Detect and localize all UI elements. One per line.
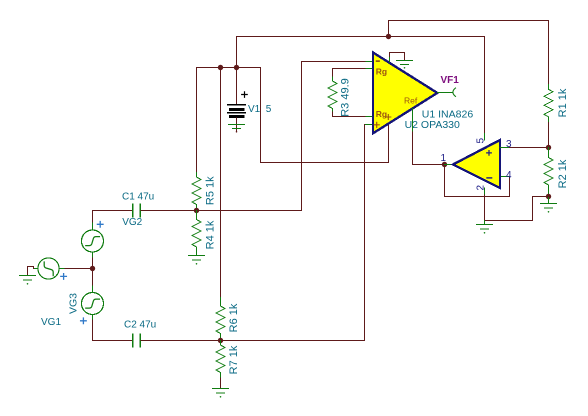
ground dot below battery (236, 131, 238, 133)
wire R2 node to U2 pin2 ground run (485, 197, 549, 221)
resistor R5 1k (192, 173, 201, 211)
wire feedback U2 output to pin4 (445, 165, 510, 197)
pin stub U1 Rg top (366, 68, 373, 70)
VG2 plus mark (97, 222, 103, 228)
capacitor C2 47u (133, 334, 140, 347)
ground dot at U1 top (404, 67, 406, 69)
ground at U2 pin2 (477, 221, 493, 230)
ground dot at VG1 (27, 283, 29, 285)
wire V+ row right branch down and over to U1 V- pin (261, 68, 389, 163)
wire V+ row down to R5 (196, 68, 198, 173)
wire U2 pin3 to R1 R2 node (510, 147, 549, 149)
ground dot below R4 (196, 263, 198, 265)
svg-text:Rg: Rg (376, 66, 387, 76)
node junction dot V+ row R6 branch (218, 65, 223, 70)
U1 minus mark (376, 60, 379, 62)
wire R7 bottom to ground (220, 378, 222, 389)
svg-text:VG1: VG1 (41, 317, 61, 328)
svg-text:R1 1k: R1 1k (557, 88, 569, 117)
wire C1 row right of capacitor (141, 210, 302, 212)
svg-text:3: 3 (506, 139, 512, 150)
node junction dot U2 output (442, 162, 447, 167)
node junction dot C2 R6 R7 (218, 338, 223, 343)
pin stub U1 output (437, 92, 452, 94)
voltage pin VF1 arc (453, 88, 456, 96)
resistor R6 1k (216, 298, 225, 341)
wire vertical second rail to V+ row (236, 37, 238, 68)
node junction dot R2 bottom (546, 194, 551, 199)
wire U1 Ref down to U2 output node (413, 132, 445, 165)
pin stub U1 V+ top (389, 57, 391, 63)
battery V1 negative lead (236, 118, 238, 132)
source VG3 circle (82, 293, 104, 315)
wire vertical from top rail down to second rail (388, 21, 390, 37)
ground below R4 (189, 256, 205, 261)
node junction dot C1 R4 R5 (194, 208, 199, 213)
wire U1 Rg top pin to R3 top (333, 69, 367, 78)
wire jog U1 top pin to ground (390, 53, 405, 61)
node junction dot V+ row battery branch (234, 65, 239, 70)
wire VG2 bottom to mid node (92, 258, 94, 269)
VG3 waveform symbol (86, 299, 100, 308)
pin stub U2 output pin1 (445, 164, 454, 166)
source VG2 circle (82, 230, 104, 252)
pin stub VG1 right (59, 268, 65, 270)
pin stub U1 plus input (365, 124, 373, 126)
U1 plus input mark (374, 122, 379, 127)
svg-text:C2 47u: C2 47u (124, 320, 156, 331)
svg-text:V1: V1 (248, 104, 261, 115)
pin stub U2 pin4 (500, 176, 510, 178)
VG2 waveform symbol (86, 237, 100, 246)
svg-text:C1 47u: C1 47u (122, 191, 154, 202)
wire U1 plus input down to C2 row (221, 125, 365, 341)
op-amp U2 OPA330 triangle (453, 140, 500, 188)
wire IN- from C1 node up to U1 minus input (302, 62, 367, 211)
ground dot below R7 (220, 396, 222, 398)
U2 minus mark (487, 177, 492, 179)
pin stub U1 Ref (412, 109, 414, 133)
wire V+ row horizontal (197, 67, 261, 69)
svg-text:Ref: Ref (404, 95, 418, 105)
svg-text:VG3: VG3 (68, 293, 80, 314)
wire top rail to R1 top (389, 21, 549, 85)
svg-text:R7 1k: R7 1k (228, 345, 240, 374)
wire VG2 top to C1 row (92, 211, 94, 224)
pin stub U1 minus input (366, 61, 373, 63)
U1 Rg bottom plus subscript (386, 115, 391, 120)
node junction dot VG mid (90, 266, 95, 271)
pin stub VG1 left (34, 268, 38, 270)
capacitor C1 47u (133, 204, 140, 217)
node junction dot on second rail (386, 34, 391, 39)
svg-text:R4 1k: R4 1k (205, 220, 217, 249)
wire second rail from battery branch to U2 pin5 branch (237, 36, 485, 38)
svg-text:4: 4 (506, 170, 512, 181)
ground dot below R2 (548, 211, 550, 213)
svg-text:1: 1 (441, 153, 447, 164)
pin stub U2 pin5 (484, 134, 486, 141)
wire U2 pin5 from second rail (484, 37, 486, 134)
pin stub U1 Rg bottom (366, 116, 373, 118)
svg-text:R2 1k: R2 1k (557, 159, 569, 188)
battery V1 positive lead (236, 68, 238, 105)
ground below R2 (541, 197, 557, 209)
pin stub VG2 bottom (92, 252, 94, 258)
svg-text:R3 49.9: R3 49.9 (340, 78, 352, 117)
VG1 waveform symbol (44, 262, 53, 276)
wire VG1 right to mid node (65, 268, 93, 270)
node junction dot R1 R2 (546, 145, 551, 150)
pin stub U2 pin3 (500, 147, 510, 149)
wire jog VG1 left to ground (28, 267, 34, 276)
svg-text:5: 5 (476, 138, 487, 144)
svg-text:5: 5 (266, 104, 272, 115)
wire V+ row down to R6 (220, 68, 222, 298)
svg-text:R6 1k: R6 1k (228, 303, 240, 332)
pin stub VG3 bottom (92, 315, 94, 321)
resistor R7 1k (216, 341, 225, 379)
wire R1 bottom to node (548, 122, 550, 147)
op-amp U1 INA826 triangle (373, 53, 437, 134)
resistor R4 1k (192, 211, 201, 256)
VG3 plus mark (81, 318, 87, 324)
wire VG3 top from mid node (92, 269, 94, 287)
resistor R2 1k (544, 148, 553, 197)
wire C1 row left of capacitor (93, 210, 133, 212)
ground at U1 top (397, 61, 413, 65)
resistor R1 1k (544, 85, 553, 123)
svg-text:R5 1k: R5 1k (205, 176, 217, 205)
source VG1 circle (38, 258, 59, 279)
ground below battery V1 (229, 125, 245, 129)
ground at VG1 (20, 276, 36, 281)
svg-text:VF1: VF1 (441, 75, 460, 86)
wire C2 row right of capacitor (141, 340, 221, 342)
svg-text:VG2: VG2 (122, 217, 142, 228)
wire R3 bottom to U1 Rg+ pin (333, 112, 367, 117)
resistor R3 49.9 (328, 77, 337, 112)
wire VG3 bottom to C2 row (93, 320, 133, 341)
wire U2 pin2 down (484, 195, 486, 221)
U2 plus mark (487, 151, 492, 156)
battery V1 plates (228, 105, 246, 117)
ground below R7 (213, 389, 229, 394)
pin stub U2 pin2 (484, 188, 486, 195)
pin stub VG3 top (92, 286, 94, 293)
battery V1 plus sign (242, 92, 248, 98)
ground dot at U2 pin2 (484, 232, 486, 234)
VG1 plus mark (61, 274, 67, 280)
pin stub VG2 top (92, 223, 94, 230)
